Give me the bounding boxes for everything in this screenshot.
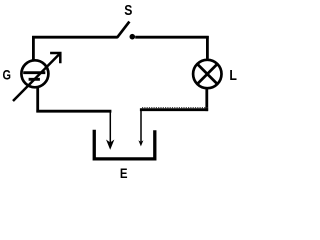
lamp L cross: [197, 64, 217, 84]
wire: bottom-right rail from right electrode to lamp branch: [140, 108, 208, 110]
wire: top rail left segment to switch hinge: [32, 36, 118, 39]
electrode left (thin wire into cell): [108, 111, 113, 148]
generator G adjustment arrow shaft: [13, 53, 60, 101]
wire: bottom-left rail from generator to left electrode: [36, 110, 111, 113]
svg-text:G: G: [3, 67, 11, 83]
wire: right vertical from top rail down to lamp: [206, 36, 209, 59]
svg-text:L: L: [229, 67, 237, 83]
lamp L circle: [193, 60, 221, 88]
label L: [229, 67, 237, 83]
wire: right vertical from lamp down to bottom-right rail: [205, 89, 208, 111]
label S: [124, 2, 132, 18]
electrode right (thin wire into cell): [138, 109, 143, 146]
wire: left vertical from generator down to bottom-left rail: [36, 88, 39, 113]
electrolytic cell vessel (beaker): [94, 130, 155, 159]
wire: top rail right segment from switch to lamp branch: [135, 36, 209, 39]
switch S contact dot: [130, 34, 136, 40]
switch S lever (open blade): [117, 22, 129, 38]
label E: [120, 165, 128, 181]
svg-text:S: S: [124, 2, 132, 18]
label G: [3, 67, 11, 83]
generator G circle: [21, 60, 48, 87]
wire: top-left vertical from generator to top rail: [32, 36, 35, 60]
generator G DC symbol short bar: [29, 78, 40, 81]
generator G DC symbol long bar: [23, 71, 45, 74]
svg-text:E: E: [120, 165, 128, 181]
generator G adjustment arrow head: [50, 52, 61, 64]
